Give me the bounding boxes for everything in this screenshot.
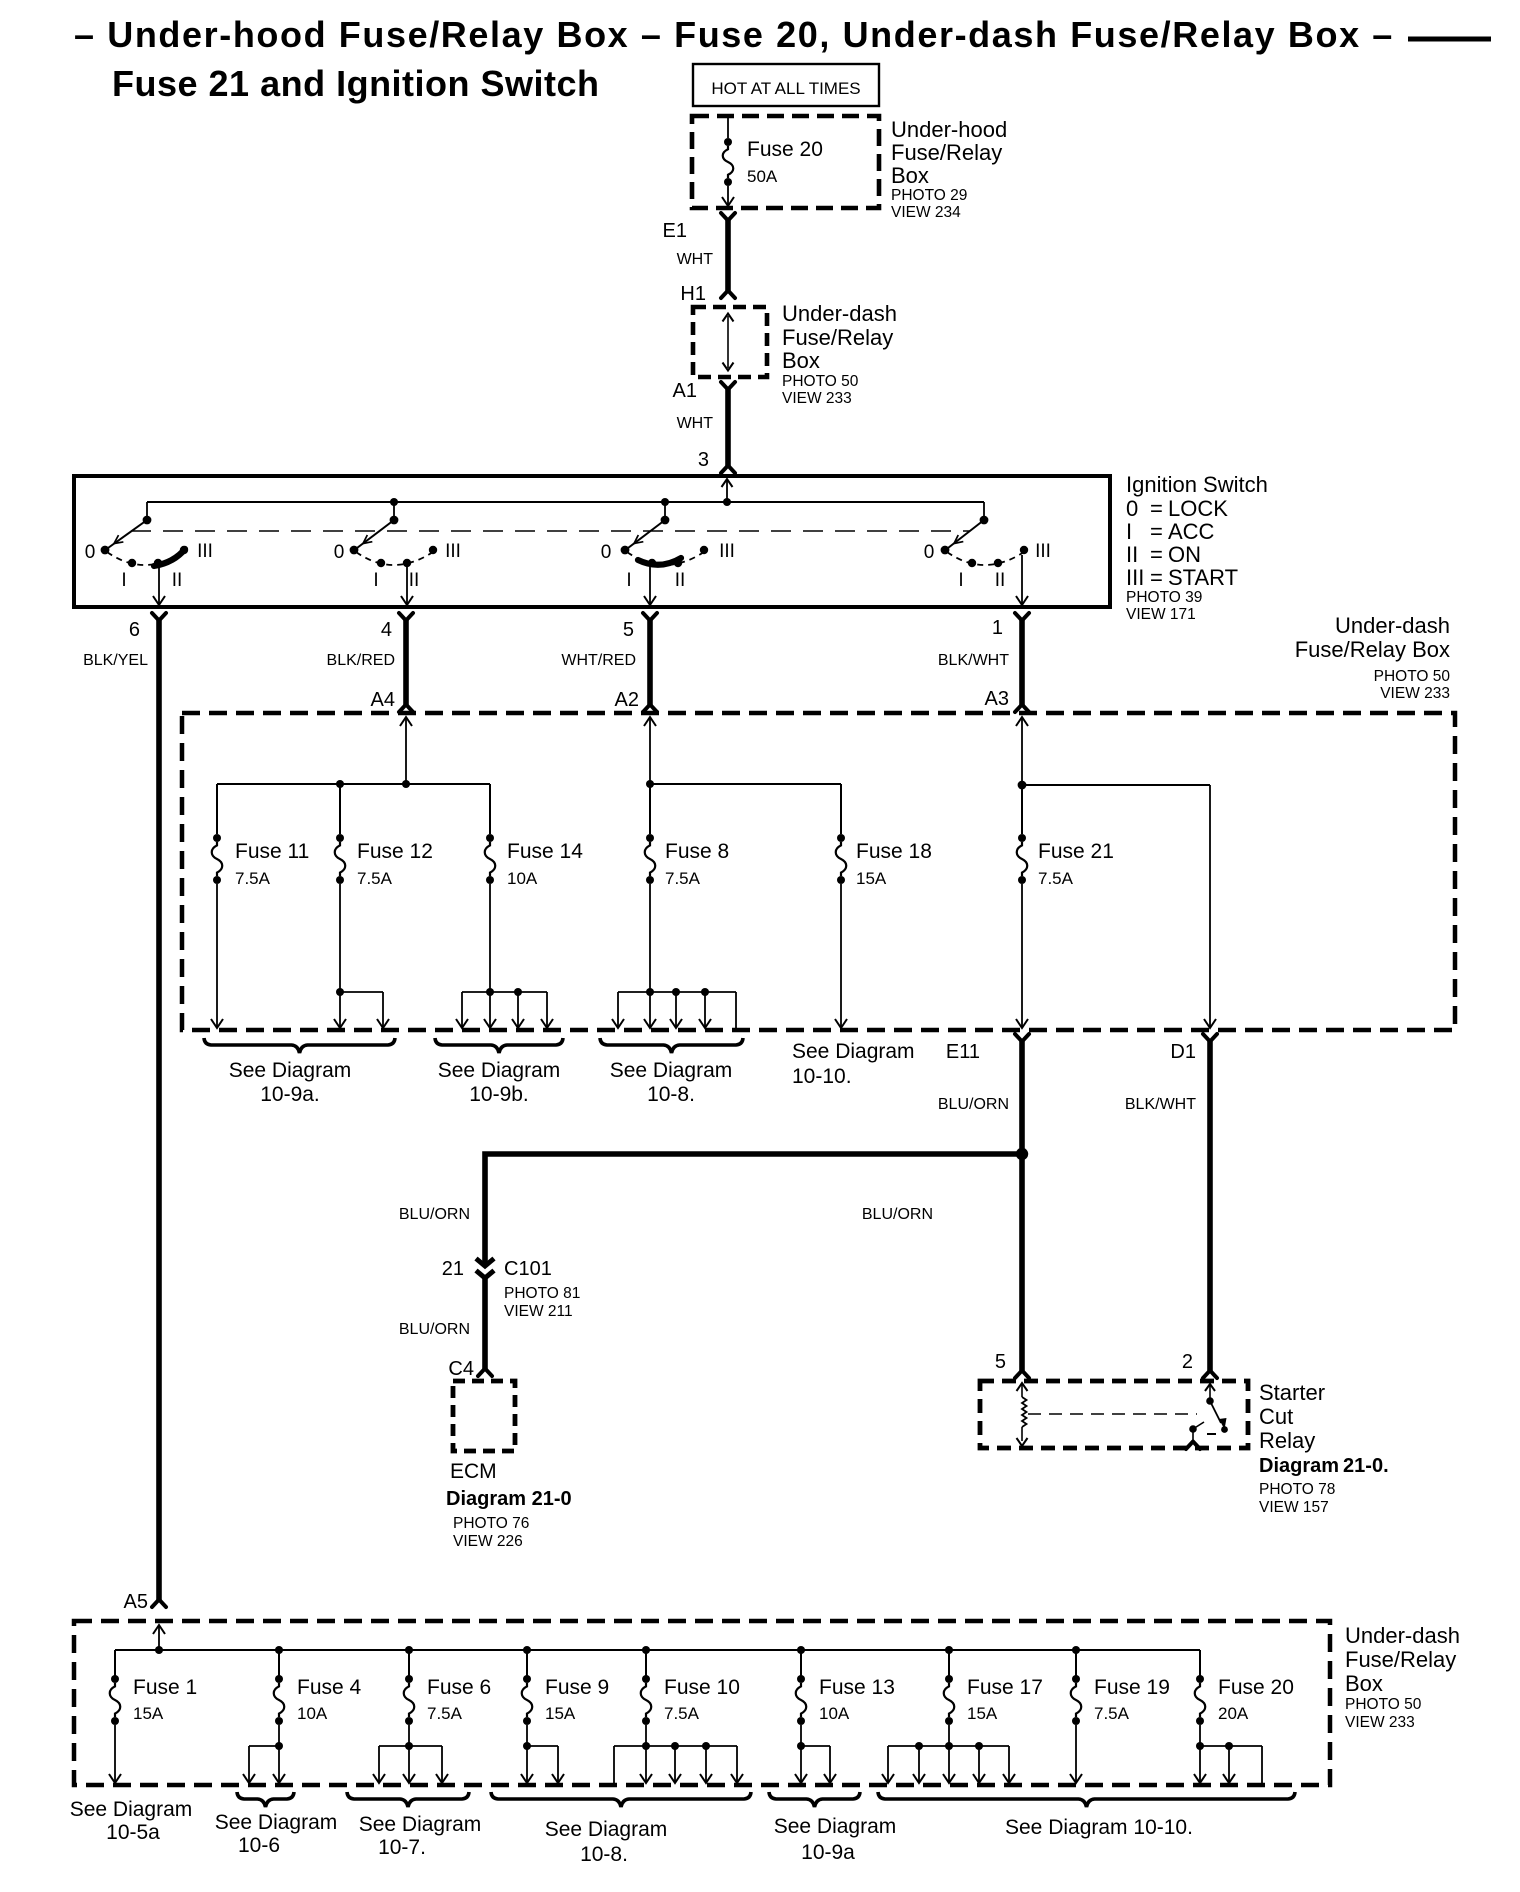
svg-text:II: II [675, 570, 686, 591]
wire BLK/WHT D1 to relay pin 2 [1207, 1041, 1213, 1371]
svg-text:See Diagram: See Diagram [792, 1040, 915, 1063]
svg-text:I: I [121, 570, 126, 591]
svg-text:10-9a.: 10-9a. [260, 1083, 320, 1106]
starter cut relay box [980, 1381, 1248, 1448]
svg-text:10-5a: 10-5a [106, 1821, 160, 1844]
svg-text:III: III [1035, 541, 1051, 562]
svg-text:BLU/ORN: BLU/ORN [399, 1206, 470, 1223]
relay coil [1017, 1383, 1028, 1391]
fuse 18 15A [840, 784, 842, 834]
fuse 19 7.5A [1075, 1650, 1077, 1676]
see diagram 10-10 reference (bottom) [878, 1792, 1295, 1807]
fuse 11 output arrow [216, 884, 218, 1027]
svg-text:21: 21 [442, 1258, 464, 1280]
under-dash fuse/relay box (bottom) [74, 1621, 1330, 1785]
svg-text:A4: A4 [371, 689, 395, 711]
see diagram 10-6 reference [237, 1792, 294, 1807]
fuse 8 output bar [649, 884, 651, 992]
junction A5-bus [155, 1646, 163, 1654]
fuse 6 output bar [408, 1725, 410, 1746]
svg-text:A1: A1 [673, 380, 697, 402]
svg-text:I: I [958, 570, 963, 591]
wire WHT A1 to ignition pin 3 [725, 389, 731, 466]
wire BLK/WHT pin1 to A3 [1019, 620, 1025, 705]
svg-text:50A: 50A [747, 167, 778, 186]
ignition switch gang 3 (pin 5, wiper at I-II) [661, 498, 669, 506]
svg-text:See Diagram 10-10.: See Diagram 10-10. [1005, 1816, 1193, 1839]
svg-text:1: 1 [992, 617, 1003, 639]
svg-text:WHT: WHT [677, 251, 714, 268]
svg-text:See Diagram: See Diagram [774, 1815, 897, 1838]
relay pin 5 [1015, 1371, 1029, 1379]
svg-text:Ignition Switch: Ignition Switch [1126, 472, 1268, 497]
svg-text:START: START [1168, 565, 1238, 590]
fuse 9 output bar [526, 1725, 528, 1746]
svg-text:10-9b.: 10-9b. [469, 1083, 529, 1106]
svg-text:Fuse 13: Fuse 13 [819, 1676, 895, 1699]
fuse 21 7.5A [1021, 785, 1023, 834]
svg-text:Fuse 21 and Ignition Switch: Fuse 21 and Ignition Switch [112, 63, 600, 104]
relay switch contact [1205, 1384, 1215, 1391]
under-dash fuse/relay box (middle) [182, 713, 1455, 1030]
svg-text:I: I [373, 570, 378, 591]
fuse 9 15A [526, 1650, 528, 1676]
svg-text:Fuse 20: Fuse 20 [1218, 1676, 1294, 1699]
connector E1 [721, 213, 735, 221]
svg-text:D1: D1 [1170, 1041, 1196, 1063]
see diagram 10-9b reference [435, 1038, 563, 1053]
see diagram 10-7 reference [347, 1792, 469, 1807]
svg-text:C4: C4 [448, 1358, 474, 1380]
fuse 14 output arrows [461, 992, 463, 1027]
relay mechanical link (dashed) [1028, 1413, 1197, 1415]
bus from A2 to fuse 18 [650, 783, 841, 785]
svg-text:VIEW 157: VIEW 157 [1259, 1499, 1329, 1516]
fuse 14 10A [489, 784, 491, 834]
svg-text:3: 3 [698, 449, 709, 471]
svg-text:Fuse 21: Fuse 21 [1038, 840, 1114, 863]
fuse 1 output arrow [114, 1725, 116, 1782]
svg-text:VIEW 233: VIEW 233 [1380, 685, 1450, 702]
svg-text:BLK/YEL: BLK/YEL [83, 652, 148, 669]
svg-text:A2: A2 [615, 689, 639, 711]
svg-text:Fuse 20: Fuse 20 [747, 138, 823, 161]
svg-text:VIEW 226: VIEW 226 [453, 1533, 523, 1550]
svg-text:Under-hood: Under-hood [891, 117, 1007, 142]
svg-text:E1: E1 [663, 220, 687, 242]
fuse 20 50A (under-hood) [727, 118, 729, 138]
svg-text:5: 5 [623, 619, 634, 641]
svg-text:Fuse 12: Fuse 12 [357, 840, 433, 863]
svg-text:Fuse 17: Fuse 17 [967, 1676, 1043, 1699]
svg-text:0: 0 [334, 542, 345, 563]
svg-text:4: 4 [381, 619, 392, 641]
junction bus x=409 [405, 1646, 413, 1654]
fuse 8 output plain stub [735, 992, 737, 1030]
fuse 10 7.5A [645, 1650, 647, 1676]
svg-text:10-7.: 10-7. [378, 1836, 426, 1859]
svg-text:Under-dash: Under-dash [782, 301, 897, 326]
svg-text:15A: 15A [856, 869, 887, 888]
branch wire to D1 [1022, 784, 1210, 786]
fuse 20 output bar [1199, 1725, 1201, 1746]
wire WHT E1 to H1 [725, 220, 731, 291]
svg-text:See Diagram: See Diagram [545, 1818, 668, 1841]
svg-text:10A: 10A [507, 869, 538, 888]
svg-text:Diagram 21-0.: Diagram 21-0. [1259, 1455, 1389, 1477]
svg-text:7.5A: 7.5A [664, 1704, 700, 1723]
fuse 19 output arrow [1075, 1725, 1077, 1782]
svg-text:– Under-hood Fuse/Relay Box –: – Under-hood Fuse/Relay Box – Fuse 20, U… [74, 14, 1394, 55]
svg-text:II: II [1126, 542, 1138, 567]
fuse 4 output bar [278, 1725, 280, 1746]
svg-text:2: 2 [1182, 1351, 1193, 1373]
svg-text:HOT AT ALL TIMES: HOT AT ALL TIMES [711, 79, 860, 98]
svg-text:5: 5 [995, 1351, 1006, 1373]
svg-text:VIEW 234: VIEW 234 [891, 204, 961, 221]
svg-text:Box: Box [782, 348, 820, 373]
wire WHT/RED pin5 to A2 [647, 620, 653, 705]
fuse 20 20A [1199, 1650, 1201, 1676]
power source label HOT AT ALL TIMES [693, 64, 879, 106]
svg-text:Fuse/Relay: Fuse/Relay [1345, 1647, 1456, 1672]
svg-text:7.5A: 7.5A [1038, 869, 1074, 888]
connector E11 [1015, 1034, 1029, 1042]
svg-text:PHOTO 76: PHOTO 76 [453, 1515, 529, 1532]
svg-text:=: = [1150, 519, 1163, 544]
svg-text:15A: 15A [967, 1704, 998, 1723]
fuse 12 output arrows [339, 992, 341, 1027]
svg-text:I: I [626, 570, 631, 591]
svg-text:I: I [1126, 519, 1132, 544]
svg-text:ACC: ACC [1168, 519, 1215, 544]
under-hood fuse/relay box [692, 116, 879, 208]
connector D1 [1203, 1034, 1217, 1042]
svg-text:10-8.: 10-8. [647, 1083, 695, 1106]
svg-text:E11: E11 [946, 1041, 980, 1063]
see diagram 10-8 reference [600, 1038, 743, 1053]
relay pin 2 [1203, 1371, 1217, 1379]
junction bus x=279 [275, 1646, 283, 1654]
svg-text:BLU/ORN: BLU/ORN [862, 1206, 933, 1223]
svg-text:7.5A: 7.5A [665, 869, 701, 888]
wire BLU/ORN branch to C101 [485, 1154, 1022, 1263]
svg-text:See Diagram: See Diagram [70, 1798, 193, 1821]
fuse 11 7.5A [216, 784, 218, 834]
svg-text:Fuse 1: Fuse 1 [133, 1676, 197, 1699]
svg-text:7.5A: 7.5A [235, 869, 271, 888]
svg-text:BLU/ORN: BLU/ORN [399, 1321, 470, 1338]
fuse 13 output bar [800, 1725, 802, 1746]
svg-text:=: = [1150, 565, 1163, 590]
svg-text:PHOTO 50: PHOTO 50 [782, 373, 859, 390]
svg-text:Relay: Relay [1259, 1428, 1315, 1453]
svg-text:Under-dash: Under-dash [1345, 1623, 1460, 1648]
junction bus x=527 [523, 1646, 531, 1654]
svg-text:III: III [197, 541, 213, 562]
svg-text:7.5A: 7.5A [1094, 1704, 1130, 1723]
svg-text:VIEW 171: VIEW 171 [1126, 606, 1196, 623]
A4 entry arrow [405, 718, 407, 784]
svg-text:0: 0 [601, 542, 612, 563]
svg-text:ECM: ECM [450, 1460, 497, 1483]
svg-text:A5: A5 [124, 1591, 148, 1613]
svg-text:Fuse 11: Fuse 11 [235, 840, 309, 863]
svg-text:PHOTO 39: PHOTO 39 [1126, 589, 1202, 606]
svg-text:See Diagram: See Diagram [215, 1811, 338, 1834]
junction A3 / fuse 21 / D1 branch [1018, 781, 1027, 790]
under-dash fuse/relay box (pass-through) [693, 307, 767, 377]
svg-text:PHOTO 50: PHOTO 50 [1345, 1696, 1422, 1713]
svg-text:II: II [409, 570, 420, 591]
bottom box bus [115, 1649, 1200, 1651]
svg-text:7.5A: 7.5A [357, 869, 393, 888]
svg-text:III: III [445, 541, 461, 562]
fuse 21 output arrow to E11 [1021, 884, 1023, 1027]
connector A5 [152, 1600, 166, 1608]
fuse 8 output arrows [617, 992, 619, 1027]
svg-text:VIEW 233: VIEW 233 [1345, 1714, 1415, 1731]
fuse 14 output bar [489, 884, 491, 992]
svg-text:=: = [1150, 542, 1163, 567]
svg-text:ON: ON [1168, 542, 1201, 567]
svg-text:Fuse 6: Fuse 6 [427, 1676, 491, 1699]
svg-text:10A: 10A [297, 1704, 328, 1723]
wire BLK/YEL pin6 to A5 [156, 620, 162, 1600]
svg-text:Box: Box [891, 163, 929, 188]
svg-text:Fuse/Relay Box: Fuse/Relay Box [1295, 637, 1450, 662]
junction pin3-bus [723, 498, 731, 506]
svg-text:BLK/RED: BLK/RED [327, 652, 395, 669]
svg-text:Fuse 4: Fuse 4 [297, 1676, 362, 1699]
svg-text:See Diagram: See Diagram [359, 1813, 482, 1836]
ignition switch box [74, 476, 1110, 607]
svg-text:Cut: Cut [1259, 1404, 1293, 1429]
wire BLU/ORN E11 to relay pin 5 [1019, 1041, 1025, 1371]
fuse 4 10A [278, 1650, 280, 1676]
fuse 1 15A [114, 1650, 116, 1676]
see diagram 10-9a reference [204, 1038, 395, 1053]
svg-text:Fuse/Relay: Fuse/Relay [782, 325, 893, 350]
ignition switch gang 4 (pin 1, output from III) [983, 502, 985, 518]
svg-text:15A: 15A [545, 1704, 576, 1723]
svg-text:10-6: 10-6 [238, 1834, 280, 1857]
svg-text:PHOTO 50: PHOTO 50 [1374, 668, 1451, 685]
svg-text:See Diagram: See Diagram [229, 1059, 352, 1082]
connector A4 [399, 705, 413, 713]
pass-through wire with arrows [727, 316, 729, 368]
svg-text:BLU/ORN: BLU/ORN [938, 1096, 1009, 1113]
junction fuse12-bus [336, 780, 344, 788]
svg-text:Fuse/Relay: Fuse/Relay [891, 140, 1002, 165]
ignition switch gang 2 (pin 4) [390, 498, 398, 506]
fuse 13 10A [800, 1650, 802, 1676]
svg-text:LOCK: LOCK [1168, 496, 1228, 521]
junction A4-bus [402, 780, 410, 788]
svg-text:0: 0 [924, 542, 935, 563]
fuse 8 7.5A [649, 784, 651, 834]
ECM box [453, 1381, 515, 1451]
svg-text:6: 6 [129, 619, 140, 641]
svg-text:III: III [719, 541, 735, 562]
svg-text:III: III [1126, 565, 1144, 590]
D1 exit arrow [1209, 1020, 1211, 1027]
A3 entry arrow [1021, 718, 1023, 785]
svg-text:C101: C101 [504, 1258, 552, 1280]
svg-text:10-9a: 10-9a [801, 1841, 855, 1864]
bus from A4 to fuses 11/12/14 [217, 783, 490, 785]
svg-text:PHOTO 78: PHOTO 78 [1259, 1481, 1335, 1498]
fuse 17 output bar [948, 1725, 950, 1746]
svg-text:10A: 10A [819, 1704, 850, 1723]
junction E11 wire / ECM branch [1016, 1148, 1028, 1160]
svg-text:VIEW 233: VIEW 233 [782, 390, 852, 407]
fuse 18 output arrow [840, 884, 842, 1027]
svg-text:Fuse 10: Fuse 10 [664, 1676, 740, 1699]
svg-text:0: 0 [1126, 496, 1138, 521]
svg-text:Box: Box [1345, 1671, 1383, 1696]
connector H1 [721, 291, 735, 299]
fuse 12 output bar [339, 884, 341, 991]
svg-text:Fuse 8: Fuse 8 [665, 840, 729, 863]
junction bus x=1076 [1072, 1646, 1080, 1654]
fuse 12 7.5A [339, 784, 341, 834]
svg-text:10-10.: 10-10. [792, 1065, 852, 1088]
fuse 20 output arrow [727, 186, 729, 205]
junction bus x=801 [797, 1646, 805, 1654]
svg-text:10-8.: 10-8. [580, 1843, 628, 1866]
svg-text:PHOTO 81: PHOTO 81 [504, 1285, 580, 1302]
fuse 10 output bar [645, 1725, 647, 1746]
svg-text:II: II [995, 570, 1006, 591]
ignition internal bus [147, 501, 984, 503]
connector A1 [721, 382, 735, 390]
svg-text:BLK/WHT: BLK/WHT [1125, 1096, 1196, 1113]
svg-text:BLK/WHT: BLK/WHT [938, 652, 1009, 669]
see diagram 10-9a reference (bottom) [769, 1792, 860, 1807]
junction fuse8-bus [646, 780, 654, 788]
A2 entry arrow [649, 718, 651, 784]
svg-text:Starter: Starter [1259, 1380, 1325, 1405]
svg-text:Under-dash: Under-dash [1335, 613, 1450, 638]
svg-text:II: II [172, 570, 183, 591]
svg-text:VIEW 211: VIEW 211 [504, 1303, 573, 1320]
A5 entry arrow [158, 1626, 160, 1650]
svg-text:20A: 20A [1218, 1704, 1249, 1723]
connector pin 3 of ignition switch [721, 466, 735, 474]
connector A2 [643, 705, 657, 713]
svg-text:=: = [1150, 496, 1163, 521]
wire BLK/RED pin4 to A4 [403, 620, 409, 705]
svg-text:Fuse 19: Fuse 19 [1094, 1676, 1170, 1699]
svg-text:15A: 15A [133, 1704, 164, 1723]
svg-text:0: 0 [85, 542, 96, 563]
pin 3 entry arrow [726, 480, 728, 501]
svg-text:A3: A3 [985, 688, 1009, 710]
svg-text:7.5A: 7.5A [427, 1704, 463, 1723]
svg-text:Fuse 14: Fuse 14 [507, 840, 583, 863]
junction bus x=646 [642, 1646, 650, 1654]
see diagram 10-8 reference (bottom) [491, 1792, 751, 1807]
title trailing dash rule [1408, 37, 1491, 42]
svg-text:Fuse 18: Fuse 18 [856, 840, 932, 863]
switch gang mechanical link (dashed) [131, 530, 970, 532]
svg-text:WHT/RED: WHT/RED [561, 652, 636, 669]
fuse 17 15A [948, 1650, 950, 1676]
svg-text:Diagram 21-0: Diagram 21-0 [446, 1488, 572, 1510]
fuse 6 7.5A [408, 1650, 410, 1676]
connector A3 [1015, 705, 1029, 713]
svg-text:See Diagram: See Diagram [438, 1059, 561, 1082]
svg-text:H1: H1 [680, 283, 706, 305]
svg-text:PHOTO 29: PHOTO 29 [891, 187, 967, 204]
svg-text:WHT: WHT [677, 415, 714, 432]
ignition switch gang 1 (pin 6, wiper at II-III) [146, 502, 148, 518]
svg-text:See Diagram: See Diagram [610, 1059, 733, 1082]
wire BLU/ORN C101 to ECM C4 [482, 1277, 488, 1369]
svg-text:Fuse 9: Fuse 9 [545, 1676, 609, 1699]
junction bus x=949 [945, 1646, 953, 1654]
